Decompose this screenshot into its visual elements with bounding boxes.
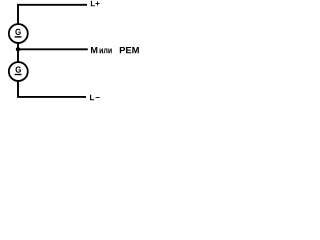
net label L+ bbox=[91, 1, 100, 7]
net label M or PEM: word или bbox=[100, 48, 112, 53]
wire M rail (middle) bbox=[17, 48, 88, 50]
junction node on M rail bbox=[16, 47, 20, 51]
generator G2 letter G bbox=[16, 66, 21, 72]
net label M or PEM: word М bbox=[91, 47, 97, 53]
wire L+ rail (top, with corner down to generator G1) bbox=[18, 5, 87, 24]
generator G2 circle bbox=[9, 62, 28, 81]
net label M or PEM: word РЕМ bbox=[120, 47, 139, 53]
generator G2 underline bbox=[15, 74, 22, 76]
net label L- bbox=[90, 95, 100, 101]
generator G1 underline bbox=[15, 36, 22, 38]
generator G1 letter G bbox=[15, 29, 20, 35]
wire L- rail (from G2 bottom with corner to bottom rail) bbox=[18, 81, 86, 97]
wire from G1 bottom through junction to generator G2 top bbox=[17, 43, 19, 62]
generator G1 circle bbox=[9, 24, 28, 43]
